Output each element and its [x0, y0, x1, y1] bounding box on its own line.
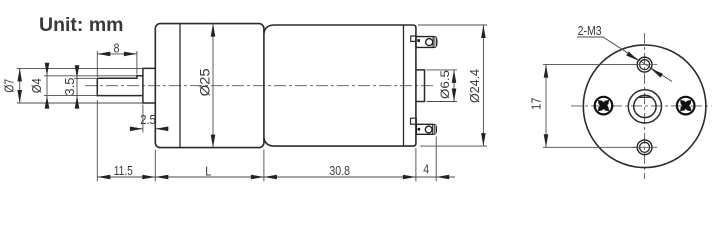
- svg-text:17: 17: [530, 97, 544, 110]
- dim 11.5: [97, 175, 110, 180]
- svg-text:Ø25: Ø25: [198, 68, 213, 96]
- svg-text:3.5: 3.5: [63, 78, 77, 96]
- bearing boss front: [143, 68, 155, 103]
- motor body: [264, 25, 416, 146]
- terminal top: [411, 36, 437, 47]
- svg-text:Ø7: Ø7: [3, 79, 17, 93]
- svg-text:30.8: 30.8: [329, 163, 350, 178]
- shaft flat chord: [638, 96, 651, 98]
- gearbox body: [155, 24, 264, 148]
- svg-text:2.5: 2.5: [140, 112, 156, 127]
- end view horizontal centerline: [571, 105, 712, 107]
- svg-text:8: 8: [114, 40, 120, 55]
- dim 4: [436, 175, 449, 180]
- shaft hole circle: [634, 95, 656, 117]
- centerline side view: [85, 85, 434, 87]
- dim L: [155, 175, 168, 180]
- rear bearing boss (6.5): [416, 70, 425, 102]
- dim d24.4: [418, 25, 487, 146]
- center boss circle: [628, 90, 661, 123]
- motor end cap seam: [403, 25, 405, 146]
- dim 8: [97, 51, 137, 77]
- dim 30.8: [264, 175, 277, 180]
- dim d6.5: [427, 70, 458, 102]
- shaft with flat: [97, 76, 143, 96]
- end cap circle: [583, 45, 706, 168]
- svg-text:2-M3: 2-M3: [578, 23, 602, 38]
- svg-text:Ø4: Ø4: [30, 78, 44, 93]
- end view vertical centerline: [644, 33, 646, 179]
- M3 hole bottom: [637, 140, 652, 155]
- screw right: [677, 97, 695, 115]
- dim d7: [17, 68, 143, 103]
- dim d4: [44, 66, 137, 105]
- svg-text:Ø6.5: Ø6.5: [438, 70, 452, 99]
- screw left: [595, 97, 613, 115]
- terminal bottom: [411, 118, 437, 134]
- gearbox faceplate line: [179, 24, 181, 148]
- dim 2.5: [130, 105, 169, 133]
- svg-text:Ø24.4: Ø24.4: [468, 69, 482, 103]
- dim d25: [212, 24, 214, 148]
- svg-text:11.5: 11.5: [114, 163, 133, 178]
- svg-text:L: L: [205, 163, 211, 178]
- svg-text:Unit: mm: Unit: mm: [39, 14, 124, 36]
- dim 17: [543, 65, 637, 148]
- dim 3.5: [74, 69, 97, 105]
- M3 hole top: [637, 57, 652, 72]
- bottom dimension chain: [97, 100, 455, 181]
- svg-text:4: 4: [423, 162, 429, 177]
